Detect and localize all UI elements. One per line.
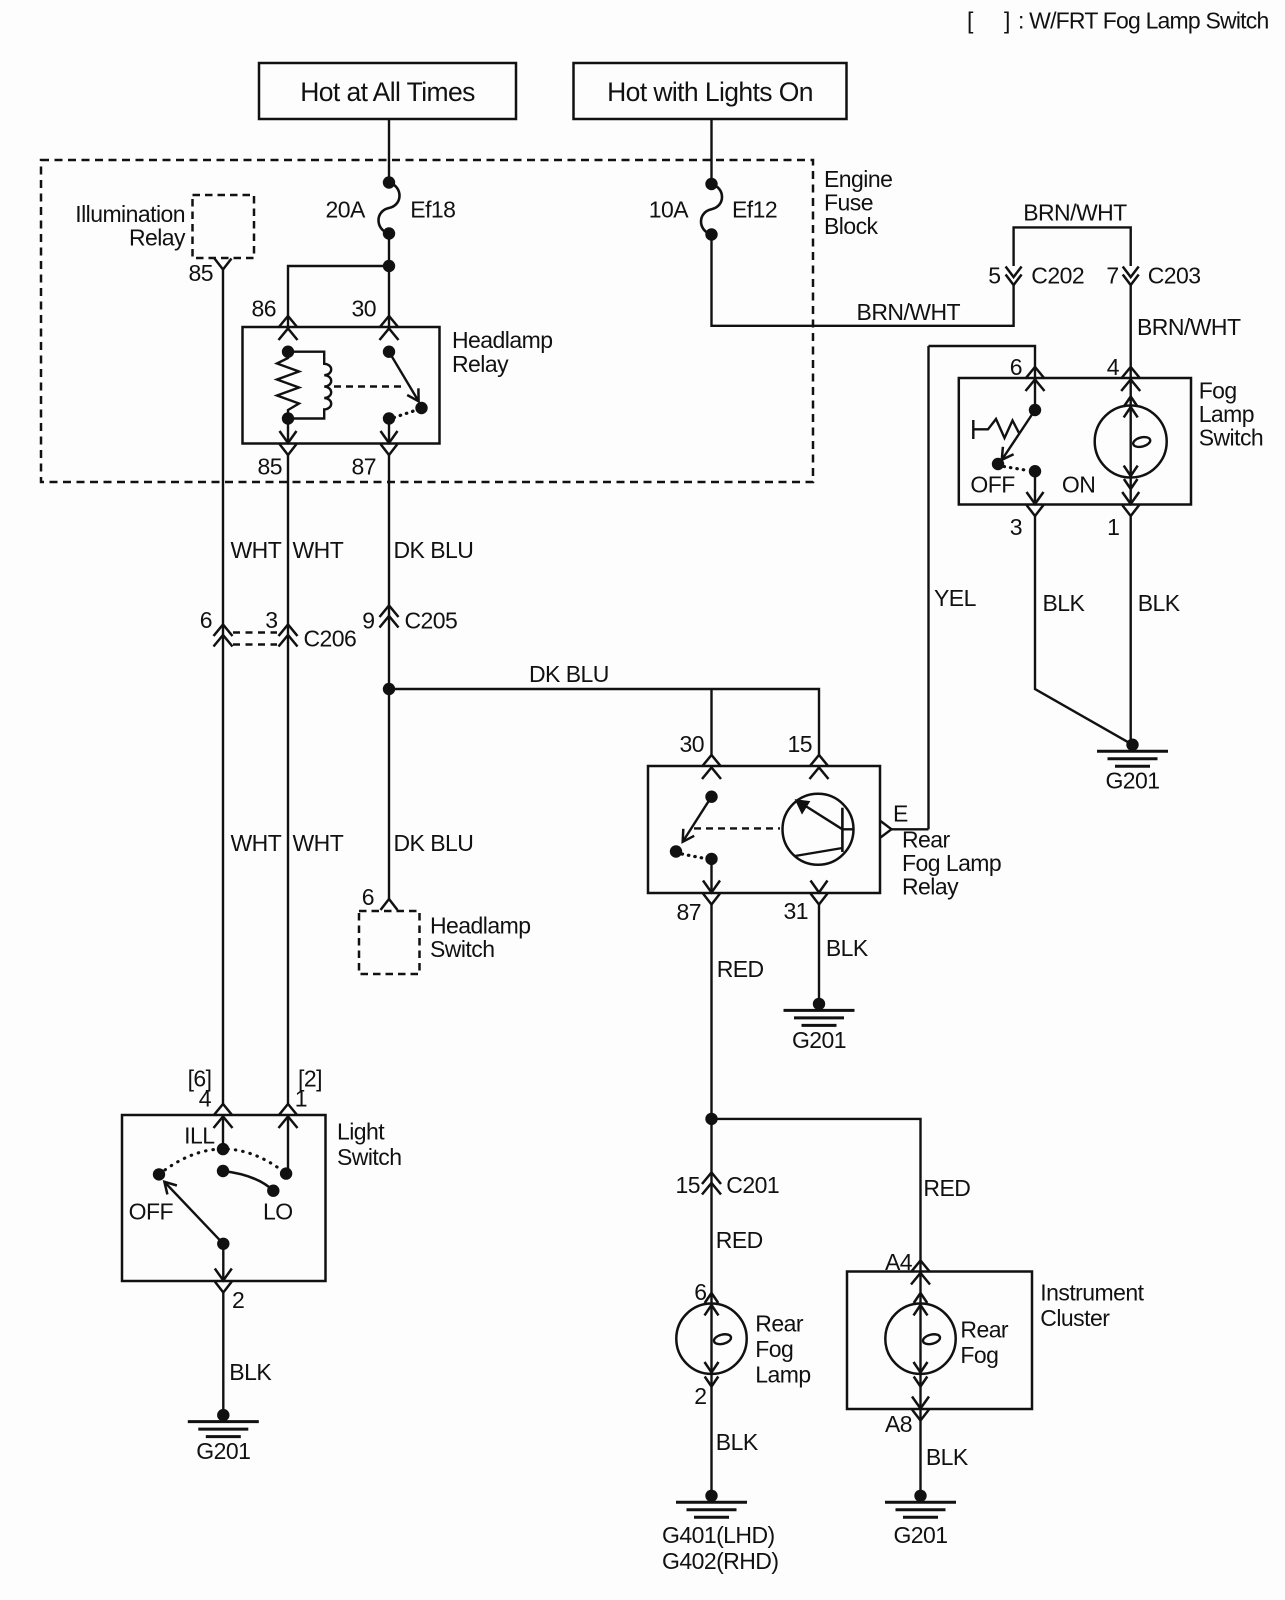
relay pin 31 label [784,898,808,924]
relay switch lever [683,797,712,842]
svg-text:G402(RHD): G402(RHD) [662,1548,778,1574]
fog switch pin 6 input chevrons [1026,367,1045,391]
relay switch lever [389,352,419,402]
svg-text:RED: RED [716,1227,763,1253]
light switch pin1 contact node [280,1167,292,1179]
svg-text:OFF: OFF [970,472,1015,498]
wire RED relay 87 to rear fog lamp [710,905,712,1496]
svg-text:85: 85 [189,260,213,286]
svg-text:87: 87 [677,899,701,925]
svg-text:WHT: WHT [231,830,282,856]
svg-text:G201: G201 [792,1027,846,1053]
relay pin 31 output chevrons [811,881,828,905]
cluster rear fog indicator [885,1293,955,1387]
svg-text:Fog Lamp: Fog Lamp [902,850,1001,876]
wire label RED [717,956,764,982]
cluster pin A4 label [885,1249,913,1275]
light switch pin 1 input chevrons [279,1104,298,1128]
relay pin 30 input chevrons [702,755,721,779]
wire label RED [716,1227,763,1253]
svg-text:86: 86 [252,296,276,322]
pin 85 label [258,454,282,480]
wire branch to pin 86 [288,266,389,327]
svg-text:5: 5 [988,263,1000,289]
relay dotted contact [682,854,705,859]
rear fog lamp pin 6 label [694,1279,706,1305]
fuse Ef12 10A [649,178,777,241]
light switch wire pin 1 to contact [287,1115,289,1174]
light switch rotor node [217,1165,229,1177]
light switch pin 1 label [295,1086,307,1112]
fog switch common node [1029,404,1041,416]
label ILL [184,1123,215,1149]
svg-text:BLK: BLK [926,1444,969,1470]
light switch pin 4 label [199,1086,212,1112]
illumination relay pin 85 connector [215,259,232,270]
light switch LO node [267,1185,279,1197]
svg-text:4: 4 [1107,354,1120,380]
svg-text:C201: C201 [726,1172,779,1198]
svg-text:Light: Light [337,1119,385,1145]
svg-text:1: 1 [295,1086,307,1112]
connector C206 [200,607,357,652]
wire label BLK [1043,590,1086,616]
svg-text:15: 15 [676,1172,700,1198]
relay switch NO contact node [705,853,717,865]
svg-text:ON: ON [1062,472,1095,498]
connector C201 [676,1172,780,1198]
pin 87 label [352,454,376,480]
light switch box [122,1115,326,1281]
wire WHT headlamp relay 85 to light switch [287,455,289,1105]
fog switch dotted contact [1004,467,1028,471]
svg-text:WHT: WHT [293,537,344,563]
svg-text:BRN/WHT: BRN/WHT [857,299,961,325]
svg-text:E: E [893,801,908,827]
light switch pin 2 label [232,1287,244,1313]
svg-text:Fog: Fog [755,1336,793,1362]
headlamp switch pin 6 connector [381,899,398,910]
svg-text:BLK: BLK [1043,590,1086,616]
engine fuse block dashed outline [41,160,813,482]
svg-text:Switch: Switch [1199,425,1263,451]
svg-text:9: 9 [362,608,374,634]
wire [388,119,390,183]
wire label DK BLU [394,537,474,563]
svg-text:YEL: YEL [934,585,977,611]
svg-text:ILL: ILL [184,1123,215,1149]
relay pin 15 label [788,731,812,757]
wire branch to relay pin 30 [710,689,712,756]
wire [388,234,390,328]
wire to fog lamp switch pin 6 [929,346,1036,378]
wire label BRN/WHT top [1023,200,1127,226]
relay pin 30 label [680,731,704,757]
svg-text:DK BLU: DK BLU [394,537,474,563]
cluster pin A8 label [885,1411,912,1437]
light switch dotted arc [159,1149,286,1174]
wire label DK BLU [394,830,474,856]
label Rear Fog indicator [960,1317,1009,1369]
svg-text:6: 6 [200,607,212,633]
connector C202 [988,263,1084,289]
svg-text:30: 30 [352,296,376,322]
pin 86 input chevrons [279,316,298,340]
wire WHT illumination relay to light switch [222,270,224,1105]
pin 85 output chevrons [280,431,297,455]
junction node RED [705,1113,717,1125]
svg-text:G201: G201 [196,1438,250,1464]
svg-text:Fog: Fog [960,1342,998,1368]
relay pin E chevron [881,821,892,838]
svg-text:C205: C205 [405,608,458,634]
relay coil lower node [282,412,294,424]
light switch ILL node [217,1143,229,1155]
fog switch wire ON to pin 3 [1034,471,1036,504]
svg-text:30: 30 [680,731,704,757]
wire [710,119,712,184]
wire label BLK [229,1359,272,1385]
headlamp switch pin 6 label [362,884,374,910]
svg-text:Fog: Fog [1199,378,1237,404]
svg-text:2: 2 [232,1287,244,1313]
svg-text:Hot with Lights On: Hot with Lights On [607,77,813,107]
svg-text:Lamp: Lamp [1199,401,1254,427]
wire label WHT [231,537,282,563]
relay coil terminal node [282,346,294,358]
wire BLK fog switch pin 3 [1035,516,1133,745]
svg-text:A4: A4 [885,1249,913,1275]
wire BLK fog switch pin 1 [1129,516,1131,745]
relay coil winding [288,352,331,419]
relay control dashed link [334,385,405,387]
svg-text:G201: G201 [893,1522,947,1548]
label OFF [970,472,1015,498]
cluster pin A8 output chevrons [912,1397,929,1421]
wire label BLK [926,1444,969,1470]
wire label YEL [934,585,977,611]
wire label WHT [231,830,282,856]
svg-text:Headlamp: Headlamp [452,327,552,353]
svg-text:Fuse: Fuse [824,190,873,216]
wire label RED right [923,1175,970,1201]
svg-text:G401(LHD): G401(LHD) [662,1522,775,1548]
svg-text:BRN/WHT: BRN/WHT [1137,314,1241,340]
svg-text:BLK: BLK [826,935,869,961]
legend W/FRT Fog Lamp Switch note [967,8,1268,34]
relay switch NO contact node [383,412,395,424]
svg-text:Ef12: Ef12 [732,197,777,223]
svg-text:Headlamp: Headlamp [430,913,530,939]
wire DK BLU [388,455,390,900]
svg-text:6: 6 [362,884,374,910]
svg-text:C203: C203 [1148,263,1201,289]
junction node DK BLU [383,683,395,695]
fog switch illumination lamp [1095,378,1167,505]
fog switch pin 1 label [1107,514,1119,540]
wire pin87 inside [388,419,390,444]
svg-text:7: 7 [1106,263,1118,289]
label Rear Fog Lamp [755,1311,810,1388]
svg-text:31: 31 [784,898,808,924]
power source box Hot at All Times [259,63,516,119]
svg-text:A8: A8 [885,1411,912,1437]
illumination relay pin 85 label [189,260,213,286]
pin 30 label [352,296,376,322]
wire label BLK [826,935,869,961]
wire label BRN/WHT [857,299,961,325]
light switch OFF contact node [153,1168,165,1180]
light switch connector label [2] [298,1066,322,1092]
light switch wire pivot to pin 2 [222,1244,224,1281]
svg-text:Illumination: Illumination [75,201,185,227]
pin 30 input chevrons [380,316,399,340]
wire label WHT [293,537,344,563]
light switch connector label [6] [188,1066,212,1092]
illumination relay dashed box [193,195,255,258]
svg-text:WHT: WHT [293,830,344,856]
light switch lever pivot node [217,1238,229,1250]
wire DK BLU branch to rear fog lamp relay [389,689,819,756]
wire label BLK [716,1429,759,1455]
light switch lever [164,1182,223,1244]
svg-text:LO: LO [263,1199,293,1225]
fog switch lever [1002,410,1035,460]
wire label BRN/WHT right [1137,314,1241,340]
pin 86 label [252,296,276,322]
headlamp relay box [243,327,440,444]
headlamp switch dashed box [359,911,420,974]
svg-text:Engine: Engine [824,166,892,192]
svg-text:BRN/WHT: BRN/WHT [1023,200,1127,226]
wire relay E to YEL [892,828,929,830]
svg-text:1: 1 [1107,514,1119,540]
svg-text:85: 85 [258,454,282,480]
svg-text:G201: G201 [1105,768,1159,794]
relay switch common node [383,346,395,358]
junction node [383,260,395,272]
label Headlamp Relay [452,327,552,377]
wire label DK BLU horizontal [529,661,609,687]
svg-text:Instrument: Instrument [1040,1280,1144,1306]
wire YEL [927,346,929,829]
label Engine Fuse Block [824,166,892,239]
instrument cluster box [847,1272,1032,1410]
label Light Switch [337,1119,401,1171]
light switch pin 2 output chevrons [215,1269,232,1293]
relay control dashed link [694,827,780,829]
fuse Ef18 20A [326,176,456,239]
fog switch OFF contact node [992,458,1004,470]
svg-text:C206: C206 [304,626,357,652]
light switch pin 4 input chevrons [214,1104,233,1128]
ground G201 rear fog lamp relay [784,998,855,1053]
rear fog lamp relay box [648,766,880,893]
fog lamp switch box [959,378,1191,505]
ground G201 instrument cluster [885,1490,956,1548]
connector C205 [362,606,457,634]
cluster pin A4 input chevrons [911,1261,930,1285]
label ON [1062,472,1095,498]
wire BLK relay pin 31 [818,905,820,1004]
relay pin E label [893,801,908,827]
light switch LO arc [223,1171,273,1191]
relay pin 87 label [677,899,701,925]
fog switch pin 3 label [1010,514,1022,540]
wire pin85 inside [287,419,289,444]
fog switch pin 6 label [1010,354,1022,380]
svg-text:RED: RED [923,1175,970,1201]
svg-text:20A: 20A [326,197,366,223]
svg-text:6: 6 [1010,354,1022,380]
wire BRN/WHT to fog lamp switch pin 4 [1129,284,1131,379]
relay switch armature node [415,402,427,414]
svg-text:Cluster: Cluster [1040,1305,1110,1331]
fog switch wire pin6 to contact [1034,378,1036,410]
fog switch pin 1 output chevrons [1122,492,1139,516]
relay pin 15 input chevrons [810,755,829,779]
relay coil resistor [277,352,299,419]
fog switch pin 4 input chevrons [1121,367,1140,391]
svg-text:10A: 10A [649,197,689,223]
relay switch dotted contact [394,411,415,418]
svg-text:RED: RED [717,956,764,982]
svg-text:Rear: Rear [960,1317,1009,1343]
svg-text:Lamp: Lamp [755,1362,810,1388]
label Rear Fog Lamp Relay [902,827,1001,900]
fog switch pin 3 output chevrons [1027,492,1044,516]
label Headlamp Switch [430,913,530,963]
svg-text:3: 3 [1010,514,1022,540]
ground G201 light switch [188,1409,259,1464]
pin 87 output chevrons [381,431,398,455]
connector C203 [1106,263,1200,289]
light switch wire pin 4 to ILL [222,1115,224,1149]
svg-text:OFF: OFF [129,1199,174,1225]
wire BRN/WHT to C202 [712,235,1014,326]
wire label BLK [1138,590,1181,616]
svg-text:Relay: Relay [452,351,509,377]
relay switch armature node [670,845,682,857]
wire BRN/WHT upper jog [1014,227,1131,266]
svg-text:87: 87 [352,454,376,480]
svg-text:DK BLU: DK BLU [394,830,474,856]
svg-text:]: ] [1004,8,1010,34]
svg-text:Ef18: Ef18 [410,197,455,223]
svg-text:Relay: Relay [129,225,186,251]
svg-text:Relay: Relay [902,874,959,900]
fog switch resistor [973,419,1019,439]
svg-text:3: 3 [265,607,277,633]
svg-text:Switch: Switch [337,1144,401,1170]
svg-text:BLK: BLK [229,1359,272,1385]
fog switch ON contact node [1029,465,1041,477]
wire RED branch to instrument cluster [712,1119,921,1496]
svg-text:Rear: Rear [755,1311,804,1337]
svg-text:BLK: BLK [1138,590,1181,616]
svg-text:DK BLU: DK BLU [529,661,609,687]
rear fog lamp pin 2 label [694,1383,706,1409]
svg-text:2: 2 [694,1383,706,1409]
svg-text:: W/FRT Fog Lamp Switch: : W/FRT Fog Lamp Switch [1018,8,1268,34]
svg-text:Hot at All Times: Hot at All Times [300,77,475,107]
svg-text:Block: Block [824,213,879,239]
wire label WHT [293,830,344,856]
ground G201 fog lamp switch [1097,739,1168,794]
label Instrument Cluster [1040,1280,1144,1332]
wire relay pin 87 inside [710,859,712,893]
relay pin 87 output chevrons [703,881,720,905]
label OFF [129,1199,174,1225]
svg-text:WHT: WHT [231,537,282,563]
svg-text:Switch: Switch [430,936,494,962]
svg-text:BLK: BLK [716,1429,759,1455]
svg-text:4: 4 [199,1086,212,1112]
relay switch common node [705,791,717,803]
svg-text:C202: C202 [1031,263,1084,289]
power source box Hot with Lights On [574,63,847,119]
label LO [263,1199,293,1225]
fog switch pin 4 label [1107,354,1120,380]
label Fog Lamp Switch [1199,378,1263,451]
label Illumination Relay [75,201,186,251]
svg-text:15: 15 [788,731,812,757]
rear fog lamp [676,1293,746,1387]
wire BLK light switch pin 2 [222,1293,224,1416]
ground G401 G402 rear fog lamp [662,1490,778,1574]
relay transistor [783,794,854,865]
